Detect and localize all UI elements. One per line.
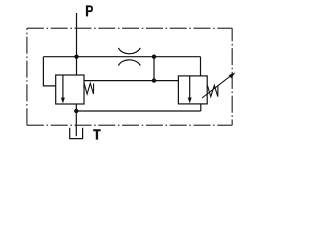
node junction top line/middle link: [152, 55, 156, 59]
valve V2 flow path arrow: [189, 76, 191, 99]
enclosure dash-dot boundary right: [231, 28, 233, 125]
valve V2 relief: body: [178, 76, 207, 104]
wire: relief valve bottom stub: [200, 104, 202, 111]
port label T: [93, 129, 101, 139]
port label P: [86, 5, 93, 16]
valve V1 flow path arrow: [62, 75, 64, 99]
wire: left pilot loop: [43, 57, 55, 86]
node junction T line: [74, 109, 78, 113]
enclosure dash-dot boundary bottom: [27, 124, 232, 126]
node junction P/top line: [74, 55, 78, 59]
wire: T drain line: [75, 104, 77, 136]
valve V1 spring: [84, 83, 94, 94]
tank symbol: [70, 128, 83, 139]
wire: P supply line: [76, 13, 78, 75]
wire: middle vertical link: [153, 57, 155, 81]
enclosure dash-dot boundary top: [27, 27, 232, 29]
enclosure dash-dot boundary left: [26, 28, 28, 125]
node junction vent line: [152, 78, 156, 82]
valve V2 adjustment arrow: [202, 76, 231, 98]
restrictor orifice: [118, 48, 140, 66]
wire: top pilot line: [43, 56, 200, 58]
valve V2 spring: [207, 85, 218, 96]
wire: bottom link line: [76, 110, 201, 112]
wire: right top drop to relief valve: [200, 57, 202, 76]
wire: spring-side vent line: [84, 80, 178, 82]
valve V1 pressure reducing: body: [56, 75, 84, 104]
